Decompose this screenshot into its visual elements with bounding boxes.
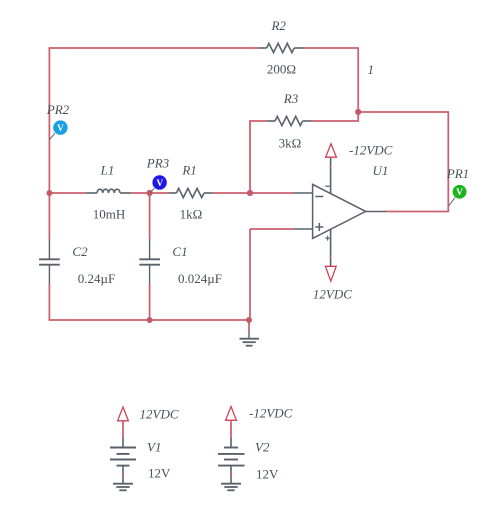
- wire right loop vertical: [447, 112, 449, 212]
- junction node left rail mid: [46, 190, 52, 196]
- svg-text:V: V: [57, 124, 64, 134]
- wire top rail: [49, 47, 259, 49]
- power arrow 12VDC bottom: [325, 266, 336, 281]
- svg-text:200Ω: 200Ω: [267, 62, 296, 77]
- junction node L1/C1: [147, 190, 153, 196]
- svg-text:U1: U1: [373, 163, 389, 178]
- svg-text:1: 1: [368, 62, 375, 77]
- ground V1: [113, 484, 133, 491]
- ground: [240, 331, 260, 346]
- op-amp U1: [294, 158, 386, 267]
- wire L1 to R1 segment: [131, 192, 169, 194]
- svg-text:L1: L1: [100, 163, 115, 178]
- svg-text:V: V: [456, 188, 463, 198]
- svg-text:12V: 12V: [256, 467, 279, 482]
- svg-text:0.24µF: 0.24µF: [78, 271, 115, 286]
- svg-text:PR3: PR3: [146, 156, 170, 171]
- wire R1 to op-amp inverting input: [213, 192, 294, 194]
- wire ground stub: [248, 320, 250, 331]
- junction node C1 bottom rail: [147, 317, 153, 323]
- wire C1 bottom: [149, 284, 151, 320]
- probe PR2: [50, 120, 68, 139]
- capacitor C2: [39, 239, 60, 284]
- svg-text:R1: R1: [181, 163, 196, 178]
- capacitor C1: [139, 239, 160, 284]
- junction node inverting input: [247, 190, 253, 196]
- svg-text:-12VDC: -12VDC: [249, 406, 293, 421]
- svg-text:12VDC: 12VDC: [313, 287, 352, 302]
- svg-text:V1: V1: [147, 440, 161, 455]
- wire node 1 vertical: [357, 48, 359, 112]
- probe PR1: [449, 185, 467, 206]
- svg-text:R3: R3: [283, 91, 299, 106]
- resistor R1: [169, 188, 213, 197]
- inductor L1: [86, 189, 131, 193]
- wire noninverting input horizontal: [250, 228, 294, 230]
- wire C1 top: [149, 193, 151, 239]
- svg-text:V2: V2: [255, 440, 270, 455]
- svg-text:V: V: [156, 179, 163, 189]
- wire mid row left segment: [49, 192, 86, 194]
- svg-text:C2: C2: [72, 244, 88, 259]
- wire R3 right L-shape: [311, 111, 358, 121]
- ground V2: [221, 484, 241, 491]
- source V2: [218, 407, 245, 484]
- svg-text:10mH: 10mH: [93, 207, 126, 222]
- resistor R3: [267, 116, 311, 125]
- power arrow -12VDC top: [326, 144, 337, 157]
- wire node 1 to right loop: [357, 111, 449, 113]
- probe PR3: [150, 175, 167, 193]
- svg-text:0.024µF: 0.024µF: [178, 271, 222, 286]
- source V1: [110, 407, 136, 484]
- svg-text:PR2: PR2: [46, 102, 70, 117]
- wire R3 left to inverting node: [250, 121, 267, 193]
- svg-text:12V: 12V: [148, 466, 171, 481]
- svg-text:12VDC: 12VDC: [140, 407, 179, 422]
- svg-text:-12VDC: -12VDC: [349, 143, 393, 158]
- junction node 1: [355, 109, 361, 115]
- wire bottom rail: [49, 319, 250, 321]
- junction node ground rail: [246, 317, 252, 323]
- resistor R2: [259, 43, 303, 52]
- wire left vertical rail: [48, 48, 50, 239]
- wire noninverting input vertical to rail: [249, 229, 251, 320]
- wire output horizontal: [386, 211, 449, 213]
- wire C2 bottom: [48, 284, 50, 320]
- svg-text:1kΩ: 1kΩ: [180, 207, 203, 222]
- svg-text:C1: C1: [172, 244, 187, 259]
- svg-text:R2: R2: [270, 18, 286, 33]
- svg-text:PR1: PR1: [446, 166, 469, 181]
- svg-text:3kΩ: 3kΩ: [279, 136, 302, 151]
- wire R2 right to node 1 corner: [303, 47, 359, 49]
